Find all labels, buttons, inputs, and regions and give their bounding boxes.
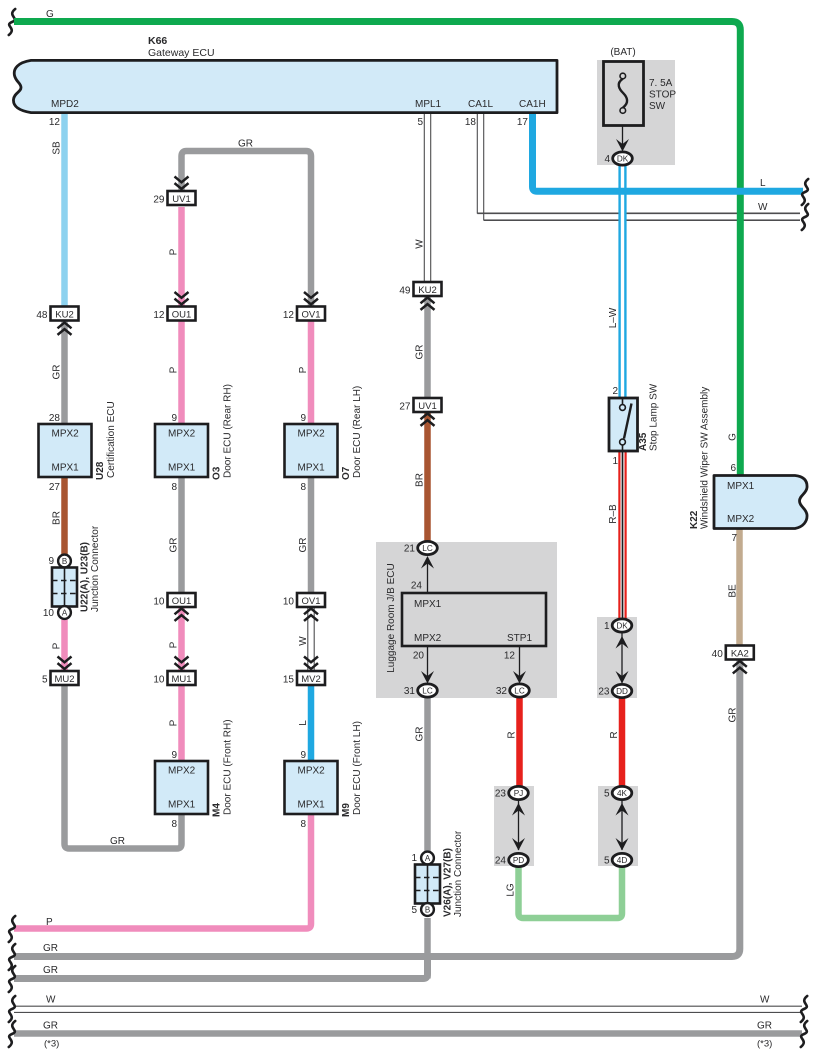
svg-text:27: 27 [49,482,61,493]
svg-text:M4: M4 [212,803,223,817]
svg-text:GR: GR [52,365,63,380]
svg-text:4D: 4D [617,856,628,865]
svg-text:B: B [425,906,430,915]
panel connector PJ-PD [494,786,534,866]
svg-text:18: 18 [465,117,477,128]
connector oval 31 LC [418,684,438,697]
svg-text:32: 32 [496,686,508,697]
chevrons up below 27 UV1 [421,414,435,420]
svg-text:P: P [46,917,53,928]
wire GR 49 KU2 to 27 UV1 [424,296,431,398]
svg-text:GR: GR [298,538,309,553]
svg-text:GR: GR [238,139,253,150]
connector 29 UV1 [168,191,196,205]
svg-text:UV1: UV1 [172,194,190,205]
svg-text:Luggage Room J/B ECU: Luggage Room J/B ECU [386,563,397,673]
svg-text:GR: GR [43,943,58,954]
chevrons up below 10 OU1 [175,609,189,615]
svg-text:O7: O7 [341,466,352,480]
connector 49 KU2 [414,282,442,296]
svg-text:V26(A), V27(B): V26(A), V27(B) [443,848,454,917]
wire GR O7 pin8 to 10 OV1 [308,477,315,593]
chevrons up below 40 KA2 [733,661,747,667]
svg-text:21: 21 [404,544,416,555]
svg-text:12: 12 [49,117,61,128]
svg-text:M9: M9 [341,803,352,817]
svg-text:5: 5 [604,789,610,800]
wire W bottom bus full width [14,1006,802,1011]
svg-text:P: P [169,641,180,648]
svg-text:7. 5A: 7. 5A [649,78,673,89]
wire BE K22 pin7 to 40 KA2 [736,529,743,646]
svg-text:GR: GR [757,1021,772,1032]
svg-text:5: 5 [411,905,417,916]
connector oval 23 DD [612,684,632,697]
svg-text:LC: LC [514,687,525,696]
svg-text:OV1: OV1 [301,596,320,607]
svg-text:GR: GR [415,727,426,742]
chevrons down into 12 OU1 [175,292,189,298]
svg-text:GR: GR [43,965,58,976]
svg-text:K66: K66 [148,35,167,47]
wire GR junction V26 B down to GR bus2 [424,918,431,979]
svg-text:PJ: PJ [514,789,524,798]
wire L CA1H pin17 down-right to edge [533,113,804,191]
connector 10 MU1 [168,671,196,685]
svg-text:LC: LC [422,544,433,553]
svg-text:Windshield Wiper SW Assembly: Windshield Wiper SW Assembly [700,387,711,529]
junction connector pin A [58,606,71,619]
svg-text:MPX1: MPX1 [414,599,442,610]
svg-text:23: 23 [598,687,610,698]
connector 48 KU2 [51,307,79,321]
arrow down from MPX2 to 31 LC [427,646,429,680]
chevrons down into 10 MU1 [175,657,189,663]
ECU K66 Gateway ECU box [13,60,557,112]
connector oval 21 LC [418,541,438,554]
svg-text:Stop Lamp SW: Stop Lamp SW [649,383,660,451]
svg-text:4K: 4K [617,789,628,798]
connector oval 1 DK [612,619,632,632]
svg-text:GR: GR [169,538,180,553]
svg-text:R: R [507,731,518,738]
svg-text:5: 5 [417,117,423,128]
svg-text:MPX1: MPX1 [298,463,326,474]
fuse 7.5A STOP SW box [604,62,644,126]
break squiggle W bus right [801,996,807,1022]
connector oval 5 4K [612,786,632,799]
junction connector V26(A) V27(B) pin A [421,852,434,865]
svg-text:10: 10 [153,675,165,686]
svg-text:9: 9 [171,413,177,424]
svg-text:27: 27 [399,402,411,413]
svg-text:17: 17 [517,117,529,128]
chevrons down into 12 OV1 [304,292,318,298]
wire G bus top horizontal and vertical to K22 pin 6 [14,22,740,476]
svg-text:28: 28 [49,413,61,424]
break squiggle G left [9,9,15,35]
wire GR 5 MU2 down and right to M4 pin8 [65,685,182,849]
connector 5 MU2 [51,671,79,685]
double arrow PJ to PD [518,800,520,850]
svg-text:1: 1 [612,456,618,467]
wire P 12 OU1 to O3 pin9 [178,321,185,425]
connector oval 24 PD [509,853,529,866]
svg-text:CA1L: CA1L [468,99,493,110]
connector oval 5 4D [612,853,632,866]
svg-text:LC: LC [422,687,433,696]
svg-text:MPX2: MPX2 [298,766,326,777]
svg-text:W: W [298,636,309,646]
wire GR bus2 left to V26 corner [14,960,428,979]
svg-text:4: 4 [604,154,610,165]
svg-text:P: P [169,719,180,726]
break squiggle W bus left [9,996,15,1022]
break squiggle L right [802,179,808,205]
panel Luggage Room J/B ECU [376,542,557,698]
svg-text:GR: GR [110,836,125,847]
svg-text:B: B [62,557,67,566]
svg-text:STOP: STOP [649,90,676,101]
svg-text:9: 9 [300,750,306,761]
chevrons down into 15 MV2 [304,657,318,663]
ECU K22 Windshield Wiper SW Assembly box [714,476,807,529]
panel connector 4K-4D [598,786,638,866]
svg-text:KU2: KU2 [418,285,436,296]
svg-text:MPX2: MPX2 [168,429,196,440]
svg-text:1: 1 [604,621,610,632]
wire BR U28 pin27 to junction B [61,477,68,555]
svg-text:9: 9 [48,556,54,567]
svg-text:24: 24 [411,581,423,592]
svg-text:A: A [62,609,68,618]
svg-text:P: P [169,248,180,255]
svg-text:SW: SW [649,101,666,112]
svg-text:9: 9 [171,750,177,761]
wire P M9 pin8 down to P bus [14,814,311,929]
svg-text:MPD2: MPD2 [51,99,79,110]
connector 15 MV2 [297,671,325,685]
wire L 15 MV2 to M9 pin9 [308,685,315,761]
svg-text:Gateway ECU: Gateway ECU [148,47,215,59]
wire GR bus1 left-to-right to KA2 wire corner [14,953,732,960]
wire P 29 UV1 to 12 OU1 [178,207,185,307]
wire L-W 4 DK to stop lamp SW pin2 [619,165,627,398]
break squiggle GR bottom left [9,1021,15,1047]
svg-text:GR: GR [727,708,738,723]
svg-text:48: 48 [36,310,48,321]
svg-text:7: 7 [731,533,737,544]
connector 12 OV1 [297,307,325,321]
wire W MPL1 pin5 to 49 KU2 [424,113,431,282]
svg-text:P: P [169,366,180,373]
svg-text:MPX2: MPX2 [52,429,80,440]
svg-text:R: R [609,731,620,738]
svg-text:MV2: MV2 [301,674,321,685]
Luggage Room J/B ECU inner box [402,593,546,646]
svg-text:OU1: OU1 [172,310,192,321]
svg-text:GR: GR [43,1021,58,1032]
svg-text:L: L [760,178,766,189]
double arrow 4K to 4D [621,800,623,850]
ECU M4 Door ECU (Front RH) [155,761,208,814]
svg-text:DD: DD [616,687,628,696]
svg-text:P: P [298,366,309,373]
svg-text:MU1: MU1 [171,674,191,685]
svg-text:(*3): (*3) [757,1039,772,1050]
wire R 23 DD to 5 4K [619,697,626,786]
connector 10 OU1 [168,593,196,607]
arrow down from STP1 to 32 LC [519,646,521,680]
wire GR 48 KU2 to U28 pin28 [61,321,68,425]
break squiggle P bus left [9,916,15,942]
svg-text:W: W [760,995,770,1006]
svg-text:L–W: L–W [608,307,619,328]
svg-text:29: 29 [153,195,165,206]
wire GR 31 LC to junction V26 A [424,697,431,852]
svg-text:BR: BR [415,473,426,487]
panel stop-sw fuse block [597,60,675,165]
wire fuse to 4 DK with arrow [622,126,624,150]
svg-text:5: 5 [42,675,48,686]
connector oval 4 DK [613,152,633,165]
wire W CA1L pin18 down and right to edge [477,113,484,220]
svg-text:MPX2: MPX2 [168,766,196,777]
break squiggle GR bus2 left [9,966,15,992]
svg-text:STP1: STP1 [507,633,532,644]
svg-text:8: 8 [171,482,177,493]
svg-text:W: W [758,202,768,213]
chevrons down into 5 MU2 [58,657,72,663]
wire GR bottom bus full width [14,1030,802,1037]
junction connector U22(A) U23(B) grid [52,568,77,607]
svg-text:G: G [46,9,54,20]
svg-text:BE: BE [727,584,738,598]
wire LG 24 PD to 5 4D U-shape [519,866,623,918]
svg-text:GR: GR [415,345,426,360]
svg-text:Door ECU (Front LH): Door ECU (Front LH) [352,721,363,815]
wire R-B stop lamp SW pin1 to 1 DK [619,451,627,619]
svg-text:LG: LG [506,883,517,897]
connector oval 32 LC [510,684,530,697]
svg-text:12: 12 [504,651,516,662]
break squiggle GR bus1 left [9,944,15,970]
svg-text:DK: DK [617,155,629,164]
svg-text:MPX1: MPX1 [168,463,196,474]
ECU O7 Door ECU (Rear LH) [285,424,338,477]
svg-text:W: W [46,995,56,1006]
svg-text:23: 23 [495,789,507,800]
svg-text:K22: K22 [689,510,700,529]
svg-text:Certification ECU: Certification ECU [106,401,117,478]
svg-text:(BAT): (BAT) [610,47,635,58]
wire R 32 LC to 23 PJ [516,697,523,786]
svg-text:2: 2 [612,386,618,397]
chevrons up below 10 OV1 [304,609,318,615]
wire GR 40 KA2 down to GR bus1 [732,660,740,957]
fuse element symbol [619,79,627,108]
svg-text:U28: U28 [95,461,106,480]
svg-text:9: 9 [300,413,306,424]
svg-text:W: W [415,239,426,249]
svg-text:UV1: UV1 [418,401,436,412]
svg-text:MPX1: MPX1 [168,800,196,811]
panel connector DK-DD [597,617,637,698]
svg-text:SB: SB [52,141,63,155]
svg-text:KU2: KU2 [55,310,73,321]
svg-text:12: 12 [153,310,165,321]
wire GR top loop col B to col C [182,151,312,307]
ECU M9 Door ECU (Front LH) [285,761,338,814]
connector oval 23 PJ [509,786,529,799]
connector 12 OU1 [168,307,196,321]
svg-text:KA2: KA2 [731,649,749,660]
junction connector V26 pin B [421,903,434,916]
wire P 10 OU1 to 10 MU1 [178,607,185,671]
svg-text:Door ECU (Front RH): Door ECU (Front RH) [223,719,234,815]
svg-text:20: 20 [413,651,425,662]
wire GR O3 pin8 to 10 OU1 [178,477,185,593]
wire W white 10 OV1 to 15 MV2 [308,607,315,671]
svg-text:BR: BR [52,511,63,525]
svg-text:OV1: OV1 [301,310,320,321]
svg-text:U22(A), U23(B): U22(A), U23(B) [80,542,91,612]
svg-text:(*3): (*3) [44,1039,59,1050]
connector 40 KA2 [726,646,754,660]
svg-text:40: 40 [712,649,724,660]
svg-text:Junction Connector: Junction Connector [90,525,101,612]
svg-text:MPX1: MPX1 [727,481,755,492]
svg-text:CA1H: CA1H [519,99,546,110]
svg-text:1: 1 [411,853,417,864]
svg-text:6: 6 [730,463,736,474]
svg-text:24: 24 [495,856,507,867]
svg-text:G: G [727,433,738,441]
switch A35 Stop Lamp SW box [609,398,638,451]
svg-text:PD: PD [513,856,524,865]
svg-text:8: 8 [300,482,306,493]
svg-text:MPX1: MPX1 [52,463,80,474]
svg-text:MPX2: MPX2 [727,514,755,525]
svg-text:10: 10 [283,597,295,608]
wire P junction A to 5 MU2 [61,618,68,671]
svg-text:O3: O3 [212,466,223,480]
break squiggle W right top [802,204,808,230]
wire P 12 OV1 to O7 pin9 [308,321,315,425]
junction connector V26(A) V27(B) grid [415,865,440,904]
svg-text:Door ECU (Rear RH): Door ECU (Rear RH) [223,384,234,478]
svg-text:10: 10 [153,597,165,608]
svg-text:15: 15 [283,675,295,686]
svg-text:10: 10 [43,608,55,619]
svg-text:A35: A35 [638,432,649,451]
svg-text:8: 8 [171,819,177,830]
svg-text:MPX1: MPX1 [298,800,326,811]
break squiggle GR bottom right [801,1021,807,1047]
svg-text:Door ECU (Rear LH): Door ECU (Rear LH) [352,386,363,478]
svg-text:31: 31 [404,686,416,697]
svg-text:L: L [298,720,309,726]
svg-text:Junction Connector: Junction Connector [453,830,464,917]
connector 10 OV1 [297,593,325,607]
svg-text:P: P [52,642,63,649]
svg-text:8: 8 [300,819,306,830]
svg-text:DK: DK [616,622,628,631]
wire BR 27 UV1 to 21 LC [424,412,431,542]
chevrons down into 29 UV1 [175,177,189,183]
wire SB MPD2 pin12 to 48 KU2 [61,113,68,307]
svg-text:A: A [425,854,431,863]
arrow up to 21 LC from MPX1 [427,560,429,593]
wire P 10 MU1 to M4 pin9 [178,685,185,761]
connector 27 UV1 [414,398,442,412]
svg-text:MPX2: MPX2 [414,633,442,644]
svg-text:49: 49 [399,286,411,297]
svg-text:5: 5 [604,856,610,867]
svg-text:MU2: MU2 [54,674,74,685]
double arrow DK to DD [621,633,623,683]
switch contacts A35 [622,398,624,404]
ECU U28 Certification ECU [39,424,92,477]
chevrons up into 48 KU2 [58,323,72,329]
junction connector U22(A) U23(B) pin B [58,555,71,568]
svg-text:MPX2: MPX2 [298,429,326,440]
svg-text:12: 12 [283,310,295,321]
svg-text:MPL1: MPL1 [415,99,442,110]
svg-text:OU1: OU1 [172,596,192,607]
ECU O3 Door ECU (Rear RH) [155,424,208,477]
svg-text:R–B: R–B [608,504,619,524]
chevrons up below 49 KU2 [421,298,435,304]
